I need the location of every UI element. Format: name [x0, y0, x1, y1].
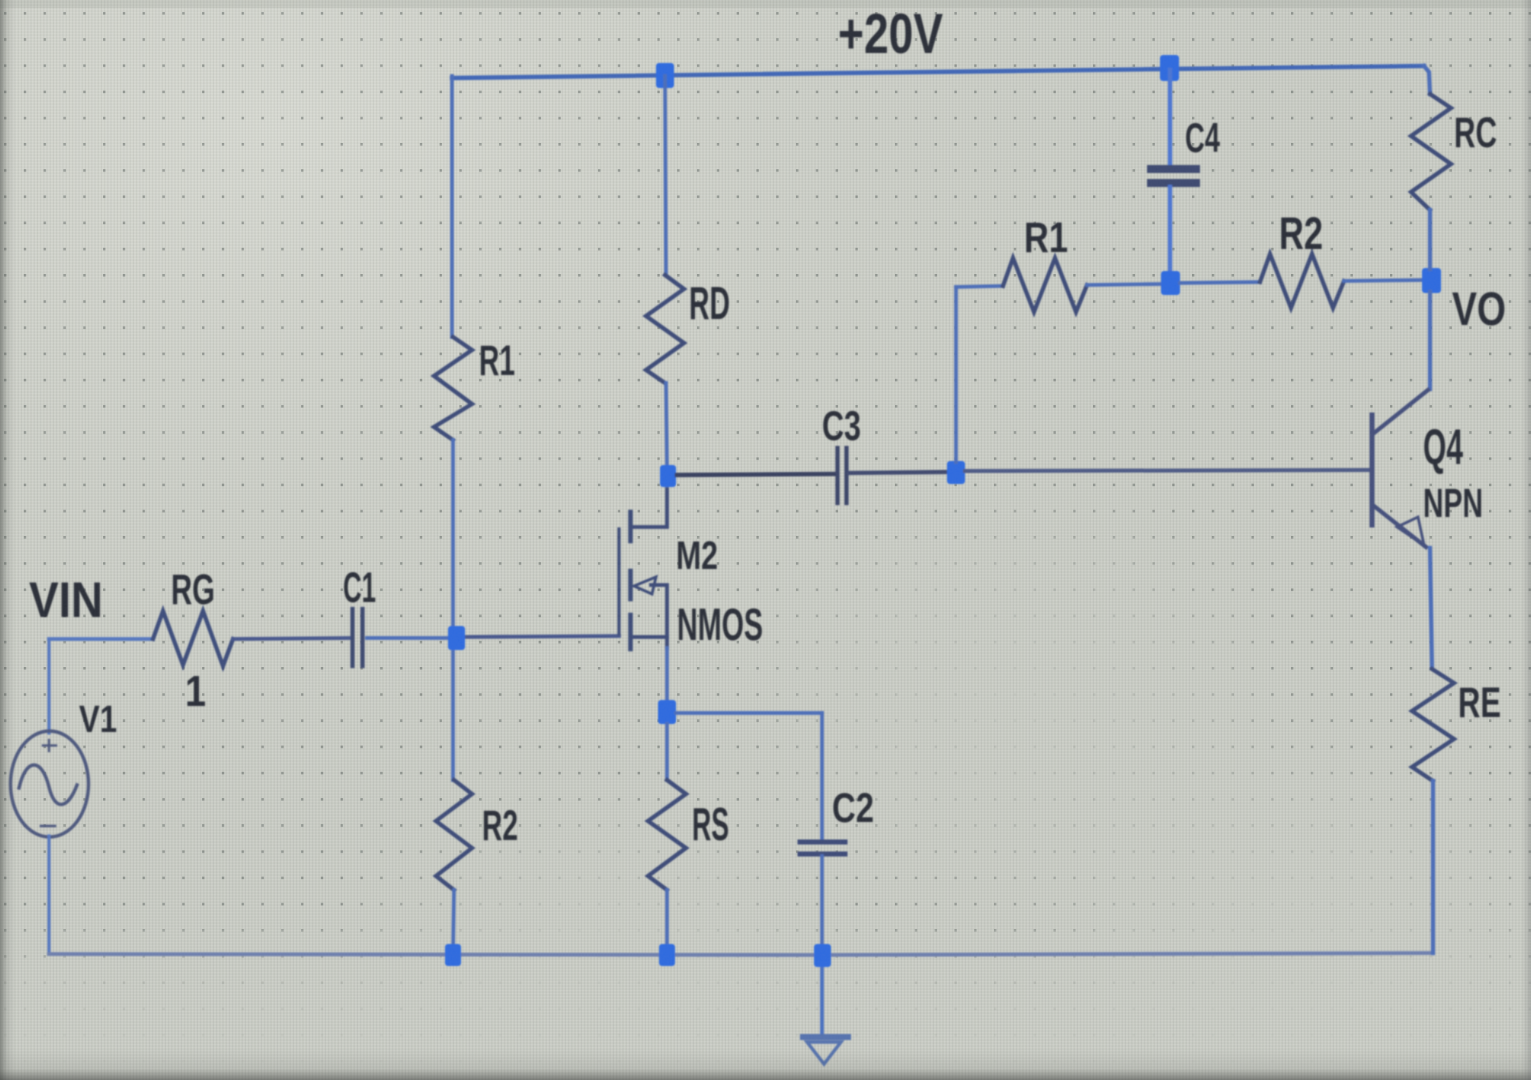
- resistor R2 (left bias, vertical): [436, 780, 472, 890]
- wire RC bottom lead: [1428, 210, 1432, 269]
- resistor RG (horizontal): [153, 611, 233, 666]
- vignette left edge: [0, 0, 16, 1080]
- vignette right edge: [1521, 0, 1531, 1080]
- node bottom rail / left branch: [445, 944, 461, 966]
- wire RC top lead: [1424, 66, 1430, 94]
- wire node to R2 (feedback): [1180, 282, 1260, 283]
- wire C2 bottom lead: [820, 856, 824, 945]
- capacitor C2: [800, 842, 845, 854]
- wire drain node to C3: [677, 474, 834, 475]
- resistor R1 (left bias, vertical): [434, 337, 472, 440]
- capacitor C4: [1151, 169, 1196, 183]
- wire C4 bottom lead: [1168, 187, 1172, 273]
- wire RD top lead: [665, 76, 666, 275]
- wire bottom ground rail: [49, 953, 1433, 955]
- resistor RC (vertical): [1411, 94, 1451, 210]
- capacitor C3: [838, 448, 847, 503]
- transistor Q4 NPN: [1372, 390, 1428, 547]
- wire to R1 (feedback): [956, 286, 1003, 287]
- node C4 top at rail: [1160, 55, 1179, 81]
- wire V1 top lead: [47, 639, 50, 733]
- node C3 / R1 feedback junction: [947, 461, 965, 484]
- wire C3 to feedback node: [849, 472, 947, 473]
- wire left branch middle (R1 to gate node): [451, 440, 455, 780]
- wire left branch upper (rail to R1): [450, 76, 454, 337]
- wire Q4 collector lead: [1428, 292, 1432, 389]
- wire C4 top lead: [1168, 70, 1172, 165]
- wire C2 top lead: [820, 713, 824, 839]
- node source junction: [658, 700, 676, 724]
- resistor R2 (feedback, horizontal): [1260, 254, 1344, 308]
- wire left branch lower (R2 to bottom rail): [453, 890, 454, 955]
- nmos M2: [619, 489, 667, 649]
- node bottom rail / ground: [814, 944, 831, 967]
- resistor RD (vertical): [646, 275, 684, 383]
- wire RE bottom lead: [1431, 781, 1435, 953]
- wire R1 to C4 node: [1087, 284, 1161, 285]
- wire gate node to M2 gate: [460, 636, 619, 637]
- wire R2 to VO node: [1344, 280, 1422, 281]
- wire RS top lead: [665, 724, 669, 780]
- vignette top edge: [0, 0, 1531, 8]
- wire V1 bottom lead: [47, 836, 50, 954]
- wire RG to C1: [233, 638, 351, 639]
- capacitor C1: [353, 609, 363, 666]
- resistor RE (vertical): [1412, 669, 1454, 781]
- wire source node to C2: [676, 711, 822, 715]
- wire feedback node up to R1: [954, 287, 958, 462]
- wire C1 to gate node: [367, 636, 450, 640]
- voltage source V1 (sine): [11, 731, 89, 837]
- node drain junction: [660, 465, 676, 487]
- vignette bottom edge: [0, 1048, 1531, 1080]
- wire RD to drain node: [666, 383, 667, 467]
- wire +20V top rail: [452, 66, 1424, 78]
- node VO: [1422, 268, 1441, 293]
- ground symbol: [803, 1037, 848, 1064]
- wire base line to Q4: [965, 470, 1368, 471]
- resistor R1 (feedback, horizontal): [1003, 258, 1087, 312]
- wire ground lead: [820, 966, 824, 1034]
- wire M2 source to node: [665, 648, 669, 701]
- node gate junction: [448, 626, 465, 650]
- node C4 bottom / R1 / R2 junction: [1161, 271, 1180, 295]
- resistor RS (vertical): [648, 780, 686, 890]
- wire Q4 emitter lead: [1430, 548, 1432, 668]
- wire VIN to RG: [49, 637, 153, 641]
- node bottom rail / RS: [659, 944, 675, 966]
- wire RS bottom lead: [665, 890, 669, 955]
- node rail/RD junction: [656, 63, 674, 88]
